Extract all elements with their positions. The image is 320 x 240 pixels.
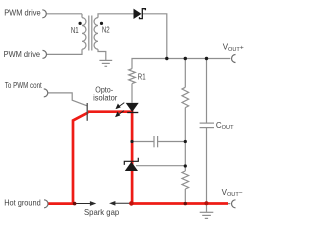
opto LED cathode bar bbox=[127, 112, 138, 114]
schottky diode D1 cathode bar bbox=[140, 9, 146, 19]
wire N1 top lead bbox=[81, 14, 83, 18]
svg-text:To PWM cont: To PWM cont bbox=[5, 80, 42, 90]
transformer T1 winding N1 bbox=[82, 18, 86, 50]
ground (secondary output) bbox=[200, 204, 214, 219]
wire divider middle bbox=[184, 108, 186, 171]
terminal VOUT+ bbox=[232, 55, 236, 63]
divider resistor upper bbox=[182, 87, 189, 107]
junction dot divider top bbox=[184, 57, 187, 60]
svg-text:N2: N2 bbox=[102, 26, 110, 35]
feedback capacitor plates bbox=[154, 136, 158, 147]
TL431 shunt regulator bar bbox=[124, 158, 138, 165]
svg-text:Hot ground: Hot ground bbox=[4, 197, 41, 207]
red noise path: emitter diagonal to hot ground bbox=[73, 113, 88, 204]
svg-text:PWM drive: PWM drive bbox=[4, 8, 41, 18]
svg-text:R1: R1 bbox=[138, 73, 146, 82]
capacitor COUT plates bbox=[200, 123, 214, 128]
opto transistor base bar bbox=[86, 103, 88, 121]
svg-text:Spark gap: Spark gap bbox=[84, 207, 119, 217]
wire VOUT+ rail bbox=[132, 59, 230, 69]
transformer T1 core bbox=[89, 16, 92, 51]
TL431 triangle bbox=[125, 162, 138, 171]
spark gap right arrow bbox=[111, 202, 132, 205]
terminal PWM drive 2 bbox=[43, 50, 47, 58]
junction dot feedback cap left bbox=[130, 140, 133, 143]
opto light arrow 1 bbox=[116, 103, 124, 109]
wire feedback cap right bbox=[158, 141, 186, 143]
wire PWM drive 2 to N1 bottom bbox=[47, 49, 82, 54]
terminal To PWM cont bbox=[44, 89, 48, 97]
junction dot TL431 to VOUT- rail bbox=[129, 201, 134, 206]
ground (transformer secondary) bbox=[99, 60, 112, 66]
junction dot divider bottom bbox=[184, 202, 187, 205]
transformer T1 winding N2 bbox=[94, 18, 98, 50]
svg-text:isolator: isolator bbox=[93, 92, 117, 102]
schottky diode D1 triangle bbox=[134, 9, 142, 19]
wire COUT bottom bbox=[206, 128, 208, 204]
wire N2 top to diode bbox=[98, 14, 134, 18]
junction dot COUT top bbox=[205, 57, 208, 60]
wire divider top bbox=[184, 59, 186, 88]
resistor R1 bbox=[129, 69, 136, 84]
wire feedback cap left bbox=[132, 141, 154, 143]
wire COUT top bbox=[206, 59, 208, 124]
red noise path: collector to TL431 to VOUT- rail bbox=[88, 112, 228, 204]
junction dot feedback cap right bbox=[184, 140, 187, 143]
svg-text:N1: N1 bbox=[71, 26, 79, 35]
spark gap left arrow bbox=[75, 202, 95, 205]
opto light arrow 2 bbox=[116, 111, 124, 117]
wire R1 bottom to opto LED bbox=[131, 84, 133, 103]
divider resistor lower bbox=[182, 171, 189, 189]
wire To PWM cont to transistor base bbox=[48, 93, 87, 106]
wire N2 bottom to ground bbox=[98, 49, 106, 60]
junction dot diode to rail bbox=[165, 57, 168, 60]
wire divider bottom bbox=[184, 189, 186, 204]
wire TL431 ref to divider bbox=[136, 165, 185, 167]
red noise path: hot ground segment bbox=[48, 202, 75, 205]
junction dot hot ground spark gap bbox=[73, 202, 77, 206]
terminal Hot ground bbox=[44, 200, 48, 208]
phase dot N1 bbox=[79, 22, 82, 25]
junction dot TL431 ref bbox=[184, 164, 187, 167]
terminal PWM drive 1 bbox=[42, 10, 46, 18]
junction dot COUT ground bbox=[204, 201, 208, 205]
opto LED triangle bbox=[126, 103, 139, 112]
terminal VOUT- bbox=[232, 200, 236, 208]
svg-text:PWM drive: PWM drive bbox=[4, 49, 41, 59]
wire diode cathode to VOUT+ rail corner bbox=[142, 14, 167, 59]
phase dot N2 bbox=[100, 22, 103, 25]
wire VOUT- terminal stub bbox=[228, 203, 231, 205]
wire PWM drive 1 to N1 top bbox=[47, 13, 83, 15]
